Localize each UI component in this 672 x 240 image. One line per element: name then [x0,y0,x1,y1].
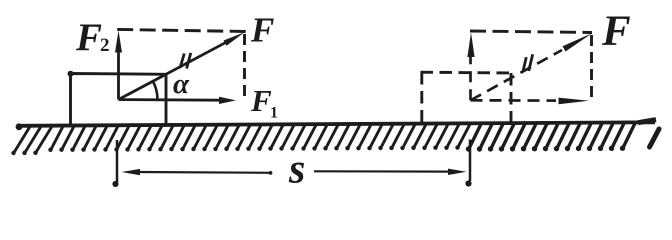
displacement dimension line with arrows [122,169,467,176]
svg-text:2: 2 [100,35,110,56]
svg-text:α: α [173,68,190,100]
force F1 vector (left, horizontal) [119,97,237,104]
svg-text:1: 1 [270,105,278,122]
svg-text:F: F [250,11,274,50]
label F2 [75,16,110,59]
double tick marks on F (left) [180,53,191,69]
svg-text:s: s [288,147,305,193]
dashed parallelogram right edge (right) [590,35,593,97]
ground hatching [11,123,635,155]
displacement dimension: left tick [112,140,118,187]
force F vector (left, diagonal) [119,32,245,99]
dashed block (right) [421,72,512,122]
label F1 [250,83,278,122]
dashed force F1' (right, horizontal) [471,98,590,105]
displacement dimension: right tick [465,140,471,187]
dashed parallelogram top edge (right) [470,31,592,33]
svg-text:F: F [75,16,102,59]
dashed parallelogram top edge (left) [117,29,246,31]
dashed parallelogram right edge (left) [243,34,246,96]
angle alpha arc [153,81,158,100]
dashed force F2' (right, vertical) [467,33,474,101]
ground surface line [16,120,659,147]
svg-text:F: F [601,8,631,55]
force F2 vector (left, vertical) [115,31,122,100]
double tick marks on F' (right) [523,54,533,71]
block (solid, left) [68,71,167,125]
dashed force F' (right, diagonal) [471,33,593,100]
svg-text:F: F [250,83,272,118]
